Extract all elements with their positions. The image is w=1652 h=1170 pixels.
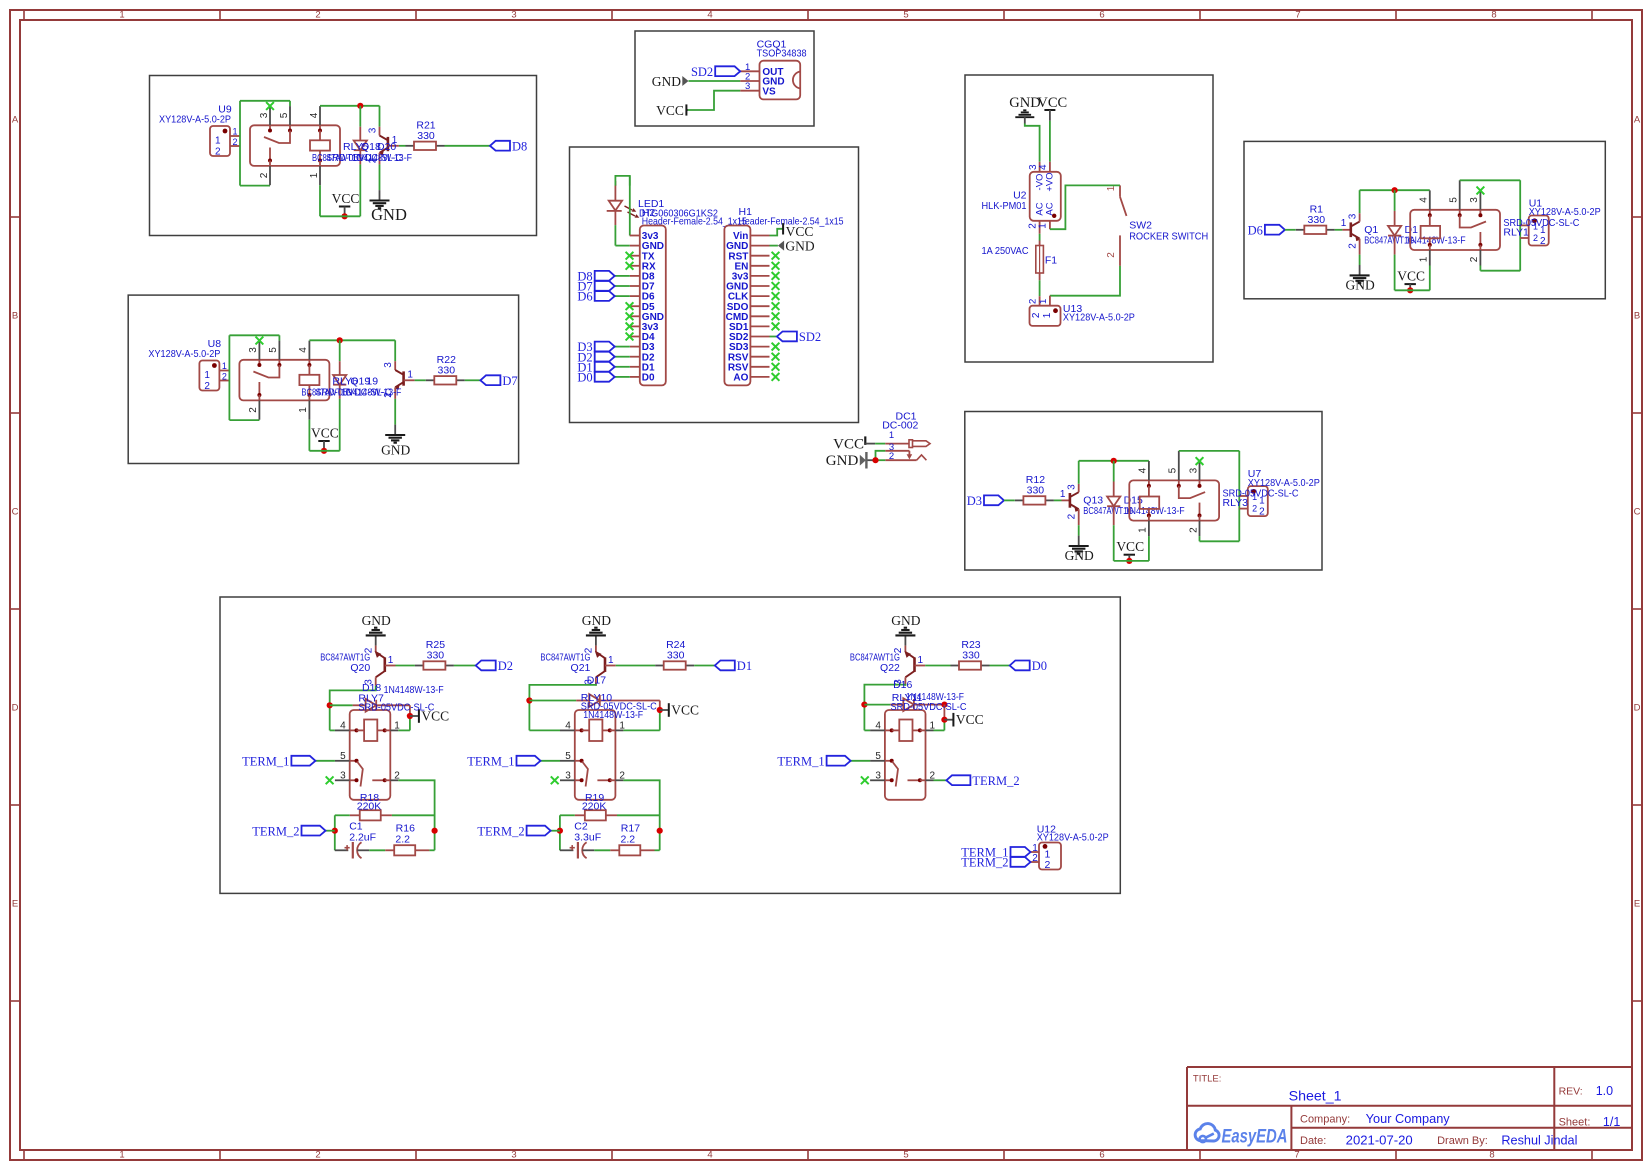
no-connect X xyxy=(772,282,780,290)
wire xyxy=(454,665,476,667)
svg-text:4: 4 xyxy=(1138,467,1149,473)
no-connect X on relay pin 3 xyxy=(326,776,334,784)
svg-text:8: 8 xyxy=(1489,1150,1494,1161)
svg-text:330: 330 xyxy=(962,650,980,662)
net flag D3 xyxy=(967,494,1004,508)
svg-text:TERM_2: TERM_2 xyxy=(972,774,1019,788)
svg-text:D2: D2 xyxy=(498,659,513,673)
ground xyxy=(778,238,815,253)
svg-text:SRD-05VDC-SL-C: SRD-05VDC-SL-C xyxy=(358,701,434,713)
svg-text:2: 2 xyxy=(1188,527,1199,533)
svg-text:2: 2 xyxy=(1259,507,1265,518)
component value labels (overlapping) xyxy=(358,682,443,713)
svg-text:VCC: VCC xyxy=(956,712,984,727)
wire xyxy=(309,339,395,341)
svg-text:3: 3 xyxy=(340,770,346,781)
svg-text:C: C xyxy=(12,507,19,518)
svg-text:TERM_1: TERM_1 xyxy=(777,754,824,768)
wire xyxy=(1039,234,1041,241)
resistor R21 330 xyxy=(406,119,445,150)
switch SW2 ROCKER SWITCH xyxy=(1106,185,1208,266)
svg-text:6: 6 xyxy=(1099,1150,1104,1161)
transistor Q21 xyxy=(540,646,615,686)
svg-text:RLY1: RLY1 xyxy=(1503,227,1529,239)
net flag D8 xyxy=(490,139,527,153)
svg-text:3: 3 xyxy=(1347,213,1358,219)
fuse F1 1A 250VAC xyxy=(982,241,1058,281)
net flag TERM_1 xyxy=(242,754,315,768)
svg-text:SD2: SD2 xyxy=(691,65,713,79)
capacitor C2 3.3uF xyxy=(560,821,601,859)
wire xyxy=(1004,499,1015,501)
svg-text:2: 2 xyxy=(215,147,221,158)
wire xyxy=(876,451,886,460)
svg-text:D0: D0 xyxy=(577,371,592,385)
wire xyxy=(594,849,610,851)
svg-text:ROCKER SWITCH: ROCKER SWITCH xyxy=(1129,231,1208,243)
svg-text:XY128V-A-5.0-2P: XY128V-A-5.0-2P xyxy=(159,113,231,125)
net flag TERM_2 xyxy=(961,856,1030,870)
diode D15 xyxy=(1107,461,1120,561)
svg-text:D0: D0 xyxy=(1032,659,1047,673)
connector U13 XY128V-A-5.0-2P xyxy=(1028,296,1135,326)
net flag D7 xyxy=(480,374,517,388)
svg-text:D16: D16 xyxy=(893,679,912,691)
resistor R17 2.2 xyxy=(610,823,654,856)
no-connect X xyxy=(772,262,780,270)
wire xyxy=(615,176,629,186)
wire xyxy=(934,729,945,731)
svg-text:4: 4 xyxy=(565,720,571,731)
power flag VCC xyxy=(311,426,339,451)
relay RLY5 xyxy=(250,106,340,185)
ground xyxy=(1345,265,1374,293)
junction xyxy=(872,457,878,463)
component value labels (overlapping) xyxy=(1083,495,1184,517)
net flag D2 xyxy=(577,350,614,364)
svg-text:1: 1 xyxy=(215,136,221,147)
svg-text:Drawn By:: Drawn By: xyxy=(1437,1135,1488,1147)
svg-text:C: C xyxy=(1634,507,1641,518)
transistor Q18 xyxy=(367,106,399,190)
svg-text:VCC: VCC xyxy=(1116,539,1144,554)
svg-text:GND: GND xyxy=(652,74,681,89)
svg-text:GND: GND xyxy=(1009,95,1040,111)
resistor R25 330 xyxy=(415,639,454,670)
svg-text:1: 1 xyxy=(1038,223,1049,229)
svg-text:1: 1 xyxy=(1138,527,1149,533)
svg-text:AO: AO xyxy=(733,373,748,384)
resistor R24 330 xyxy=(655,639,694,670)
net flag SD2 xyxy=(777,330,821,344)
wire xyxy=(320,105,380,107)
component value labels (overlapping) xyxy=(301,376,401,399)
wire xyxy=(392,814,435,816)
relay RLY11 xyxy=(870,710,935,800)
svg-text:2: 2 xyxy=(1347,243,1358,249)
svg-text:D7: D7 xyxy=(502,374,517,388)
svg-text:6: 6 xyxy=(1099,10,1104,21)
component labels LED1 H2 xyxy=(638,198,747,228)
component value labels (overlapping) xyxy=(891,679,967,713)
wire xyxy=(1200,536,1240,541)
svg-text:2.2: 2.2 xyxy=(395,833,410,845)
svg-text:3: 3 xyxy=(1469,197,1480,203)
svg-text:3: 3 xyxy=(875,770,881,781)
svg-text:330: 330 xyxy=(667,650,685,662)
net flag TERM_2 xyxy=(252,824,325,838)
ground xyxy=(582,613,611,646)
svg-text:1N4148W-13-F: 1N4148W-13-F xyxy=(384,684,444,696)
svg-text:1: 1 xyxy=(309,172,320,178)
wire xyxy=(1114,536,1149,561)
svg-text:220K: 220K xyxy=(357,800,382,812)
svg-text:2: 2 xyxy=(1067,513,1078,519)
wire xyxy=(615,225,629,246)
wire xyxy=(560,815,575,850)
wire xyxy=(445,145,491,147)
svg-text:Sheet_1: Sheet_1 xyxy=(1289,1088,1342,1104)
svg-text:D6: D6 xyxy=(577,290,592,304)
wire xyxy=(616,665,656,667)
svg-text:A: A xyxy=(1634,115,1641,126)
wire xyxy=(623,729,659,731)
svg-text:HLK-PM01: HLK-PM01 xyxy=(982,200,1027,212)
no-connect X xyxy=(626,312,634,320)
power flag VCC xyxy=(944,712,983,727)
svg-text:4: 4 xyxy=(298,347,309,353)
net flag SD2 xyxy=(691,65,740,79)
svg-text:VCC: VCC xyxy=(786,224,814,239)
junction xyxy=(526,697,532,703)
wire xyxy=(551,830,560,832)
diode D1 xyxy=(1388,190,1401,290)
net flag D1 xyxy=(577,360,614,374)
svg-text:VCC: VCC xyxy=(833,436,864,452)
power module U2 HLK-PM01 xyxy=(982,162,1061,234)
junction xyxy=(407,713,413,719)
relay value label xyxy=(1223,488,1299,510)
svg-text:5: 5 xyxy=(1449,197,1460,203)
svg-text:GND: GND xyxy=(362,613,391,628)
no-connect X xyxy=(772,323,780,331)
net flag D0 xyxy=(1010,659,1047,673)
svg-text:2: 2 xyxy=(204,381,210,392)
svg-text:5: 5 xyxy=(875,751,881,762)
svg-text:1N4148W-13-F: 1N4148W-13-F xyxy=(1406,235,1466,247)
wire xyxy=(1025,124,1040,162)
junction xyxy=(657,707,663,713)
net flag TERM_2 xyxy=(946,774,1019,788)
svg-text:1: 1 xyxy=(222,361,227,371)
junction xyxy=(557,828,563,834)
wire xyxy=(335,815,350,850)
wire xyxy=(315,760,335,762)
wire xyxy=(615,356,630,358)
svg-text:3: 3 xyxy=(367,127,378,133)
wire xyxy=(617,814,660,816)
svg-text:4: 4 xyxy=(707,1150,712,1161)
svg-text:2: 2 xyxy=(1106,252,1117,258)
wire xyxy=(240,101,290,106)
EasyEDA logo xyxy=(1195,1124,1287,1148)
svg-text:5: 5 xyxy=(903,1150,908,1161)
svg-text:D: D xyxy=(12,703,19,714)
no-connect X xyxy=(772,302,780,310)
svg-text:A: A xyxy=(12,115,19,126)
svg-text:GND: GND xyxy=(826,453,859,469)
relay RLY7 xyxy=(335,710,400,800)
svg-text:1: 1 xyxy=(608,655,614,666)
wire xyxy=(686,91,740,110)
svg-text:1: 1 xyxy=(233,127,238,137)
transistor Q20 xyxy=(320,646,395,686)
wire xyxy=(399,145,406,147)
power flag VCC xyxy=(332,191,360,216)
connector U7 XY128V-A-5.0-2P xyxy=(1239,468,1320,518)
svg-text:1: 1 xyxy=(1038,299,1049,304)
wire xyxy=(240,185,270,187)
wire xyxy=(1360,189,1430,191)
svg-text:1: 1 xyxy=(1419,256,1430,262)
svg-text:VCC: VCC xyxy=(332,191,360,206)
svg-text:2: 2 xyxy=(1533,233,1538,243)
connector U8 XY128V-A-5.0-2P xyxy=(148,338,229,392)
wire xyxy=(229,419,259,421)
wire xyxy=(1335,229,1343,231)
wire xyxy=(529,729,560,731)
wire xyxy=(770,336,777,338)
svg-text:D1: D1 xyxy=(737,659,752,673)
svg-text:GND: GND xyxy=(785,238,814,253)
component value labels (overlapping) xyxy=(1364,224,1465,247)
wire xyxy=(239,101,241,186)
wire xyxy=(330,729,335,731)
svg-text:D17: D17 xyxy=(587,675,606,687)
wire xyxy=(396,665,415,667)
svg-text:VCC: VCC xyxy=(311,426,339,441)
wire xyxy=(659,701,661,731)
net flag D6 xyxy=(577,290,614,304)
power flag VCC xyxy=(660,703,699,718)
svg-text:330: 330 xyxy=(1308,214,1326,226)
diode D20 xyxy=(354,106,367,217)
svg-text:2: 2 xyxy=(222,372,227,382)
svg-text:330: 330 xyxy=(438,364,456,376)
IC CGQ1 TSOP34838 xyxy=(740,39,807,100)
svg-text:B: B xyxy=(12,311,18,322)
svg-text:GND: GND xyxy=(371,205,407,224)
power flag VCC xyxy=(783,223,813,239)
svg-text:Q22: Q22 xyxy=(880,662,900,674)
svg-text:VCC: VCC xyxy=(656,103,684,118)
transistor Q13 xyxy=(1060,461,1080,536)
connector U12 XY128V-A-5.0-2P xyxy=(1031,823,1109,871)
svg-text:2: 2 xyxy=(1540,236,1546,247)
wire xyxy=(229,335,279,340)
wire xyxy=(629,176,632,236)
svg-text:3: 3 xyxy=(511,10,516,21)
svg-text:1: 1 xyxy=(1341,218,1347,229)
wire xyxy=(1050,185,1120,229)
resistor R16 2.2 xyxy=(385,823,429,856)
wire xyxy=(876,459,886,461)
svg-text:2: 2 xyxy=(1045,859,1051,871)
svg-text:3: 3 xyxy=(1188,467,1199,473)
circuit block border (timer relays) xyxy=(220,597,1120,893)
transistor Q19 xyxy=(383,340,415,424)
svg-text:D6: D6 xyxy=(1248,223,1263,237)
resistor R1 330 xyxy=(1296,203,1335,234)
wire xyxy=(320,185,360,216)
net flag D8 xyxy=(577,270,614,284)
svg-text:TERM_1: TERM_1 xyxy=(242,754,289,768)
ground xyxy=(891,613,920,646)
junction xyxy=(432,828,438,834)
wire xyxy=(429,849,434,851)
wire xyxy=(1049,121,1051,162)
power flag VCC xyxy=(1116,539,1144,561)
connector U9 XY128V-A-5.0-2P xyxy=(159,103,240,157)
svg-text:5: 5 xyxy=(279,112,290,118)
svg-text:2: 2 xyxy=(1032,853,1038,864)
wire xyxy=(655,849,660,851)
svg-text:2: 2 xyxy=(233,137,238,147)
title block xyxy=(1187,1067,1632,1150)
circuit block border (U1 relay driver) xyxy=(1244,141,1605,298)
svg-text:+VO: +VO xyxy=(1045,172,1056,191)
svg-text:1: 1 xyxy=(1042,312,1053,318)
circuit block border (U8 relay driver) xyxy=(128,295,518,463)
no-connect X on relay pin 3 xyxy=(861,776,869,784)
svg-text:1N4148W-13-F: 1N4148W-13-F xyxy=(341,387,401,399)
svg-text:Date:: Date: xyxy=(1300,1135,1326,1147)
wire xyxy=(541,760,561,762)
resistor R22 330 xyxy=(426,354,465,385)
no-connect X xyxy=(772,292,780,300)
ground xyxy=(652,74,689,89)
ground xyxy=(381,425,410,458)
ground xyxy=(1009,95,1040,124)
svg-text:1: 1 xyxy=(918,655,924,666)
junction xyxy=(941,717,947,723)
junction xyxy=(1111,458,1117,464)
svg-text:E: E xyxy=(12,899,18,910)
no-connect X on relay pin 3 xyxy=(266,102,274,110)
component value labels (overlapping) xyxy=(312,141,412,164)
net flag D3 xyxy=(577,340,614,354)
svg-text:330: 330 xyxy=(1027,484,1045,496)
svg-text:5: 5 xyxy=(1168,467,1179,473)
wire xyxy=(851,760,871,762)
svg-text:4: 4 xyxy=(875,720,881,731)
wire xyxy=(943,705,945,731)
svg-text:Reshul Jindal: Reshul Jindal xyxy=(1501,1133,1577,1147)
component labels H1 xyxy=(739,206,844,228)
wire xyxy=(1460,180,1521,270)
no-connect X xyxy=(626,262,634,270)
wire xyxy=(1179,451,1240,541)
resistor R23 330 xyxy=(951,639,990,670)
no-connect X xyxy=(626,302,634,310)
svg-text:5: 5 xyxy=(565,751,571,762)
svg-text:AC: AC xyxy=(1045,202,1056,215)
resistor R19 220K xyxy=(575,792,617,820)
svg-text:GND: GND xyxy=(1065,548,1094,563)
net flag TERM_1 xyxy=(467,754,540,768)
svg-text:F1: F1 xyxy=(1045,255,1057,267)
svg-text:330: 330 xyxy=(427,650,445,662)
header H1 Header-Female-2.54_1x15 xyxy=(724,226,769,386)
svg-text:2: 2 xyxy=(1469,256,1480,262)
wire xyxy=(1079,460,1149,462)
svg-text:EasyEDA: EasyEDA xyxy=(1222,1126,1288,1148)
svg-text:1N4148W-13-F: 1N4148W-13-F xyxy=(583,709,643,721)
junction xyxy=(327,702,333,708)
wire xyxy=(369,849,385,851)
ground xyxy=(370,190,407,224)
component value labels (overlapping) xyxy=(581,675,657,722)
diode D18 xyxy=(330,699,410,712)
transistor Q22 xyxy=(850,646,925,686)
svg-text:1: 1 xyxy=(889,430,894,441)
svg-text:7: 7 xyxy=(1294,1150,1299,1161)
svg-text:VCC: VCC xyxy=(1037,95,1067,111)
svg-text:TERM_2: TERM_2 xyxy=(252,824,299,838)
circuit block border (CGQ1 IR receiver) xyxy=(635,31,814,126)
diode D17 xyxy=(529,694,659,707)
resistor R18 220K xyxy=(350,792,392,820)
svg-text:TSOP34838: TSOP34838 xyxy=(757,48,807,60)
wire xyxy=(866,459,873,461)
circuit block border (U9 relay driver) xyxy=(150,76,537,236)
svg-text:3.3uF: 3.3uF xyxy=(574,831,601,843)
wire xyxy=(398,729,410,731)
svg-text:GND: GND xyxy=(891,613,920,628)
svg-text:TITLE:: TITLE: xyxy=(1193,1073,1222,1084)
relay value label xyxy=(1503,217,1579,239)
svg-text:8: 8 xyxy=(1491,10,1496,21)
relay RLY3 xyxy=(1129,451,1219,536)
net flag TERM_2 xyxy=(477,824,550,838)
svg-text:Q20: Q20 xyxy=(350,662,370,674)
wire xyxy=(615,376,630,378)
wire xyxy=(409,705,411,730)
relay RLY1 xyxy=(1410,180,1500,265)
svg-text:E: E xyxy=(1634,899,1640,910)
net flag D0 xyxy=(577,371,614,385)
no-connect X xyxy=(626,323,634,331)
wire xyxy=(694,665,715,667)
wire xyxy=(689,80,741,82)
wire xyxy=(615,346,630,348)
svg-text:1.0: 1.0 xyxy=(1596,1084,1613,1098)
svg-text:4: 4 xyxy=(707,10,712,21)
connector U1 XY128V-A-5.0-2P xyxy=(1520,197,1601,247)
ground xyxy=(362,613,391,646)
svg-text:Q21: Q21 xyxy=(571,662,591,674)
svg-text:D0: D0 xyxy=(642,373,655,384)
svg-text:2: 2 xyxy=(248,407,259,413)
svg-text:TERM_2: TERM_2 xyxy=(477,824,524,838)
wire xyxy=(529,685,596,731)
svg-text:2: 2 xyxy=(315,10,320,21)
svg-text:1: 1 xyxy=(388,655,394,666)
wire xyxy=(925,665,950,667)
svg-text:DC-002: DC-002 xyxy=(882,420,918,432)
svg-text:4: 4 xyxy=(309,112,320,118)
junction xyxy=(342,213,348,219)
